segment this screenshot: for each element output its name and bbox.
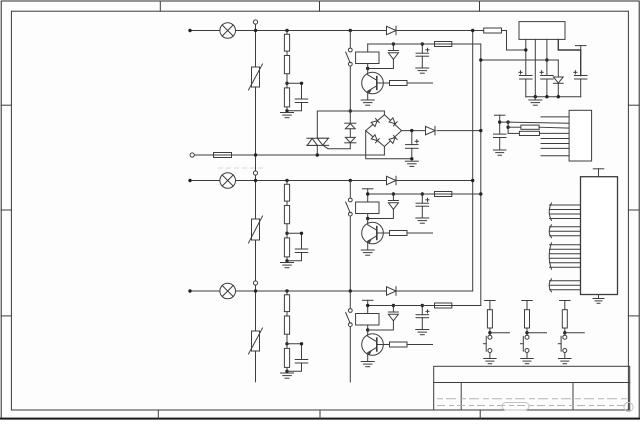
junction divider bottom channel 1 (285, 109, 288, 112)
wire divider chain channel 3 (286, 291, 288, 371)
wire flyback top stub channel 3 (392, 306, 394, 313)
resistor R21 pullup (487, 310, 492, 328)
terminal contact bottom channel 2 (348, 212, 352, 216)
capacitor C32 (416, 315, 429, 318)
title block divider 2 (572, 383, 574, 411)
cable brace U2 pins 224.8 (549, 225, 551, 238)
resistor R15 (390, 81, 408, 86)
power flag VCC RC network (494, 114, 505, 116)
junction flyback tap channel 2 (392, 192, 395, 195)
junction collector node channel 2 (366, 217, 369, 220)
junction cap tap channel 2 (421, 192, 424, 195)
junction divider top channel 1 (285, 29, 288, 32)
wire U2 pin 2 (550, 209, 581, 211)
power flag VCC button 2 (522, 300, 533, 302)
terminal TB3 channel 2 (253, 171, 257, 175)
watermark logo capsule (502, 403, 529, 411)
polarity mark C32 plus (426, 310, 429, 313)
wire bridge bottom to neutral (383, 147, 385, 156)
ground regulator (529, 100, 542, 105)
junction relay bus tap channel 3 (349, 289, 352, 292)
frame tick right y=105.2 (628, 104, 639, 106)
wire J1 pin stub 1 (541, 138, 569, 140)
wire U2 pin 5 (550, 226, 581, 228)
wire relay bus lower channel 1 (349, 66, 351, 111)
wire relay bus lower channel 2 (349, 216, 351, 291)
junction divider mid channel 2 (285, 232, 288, 235)
wire bridge top feed (350, 111, 384, 115)
wire cap branch top channel 3 (287, 344, 302, 360)
relay coil K3 (356, 314, 379, 326)
regulator U1 (519, 22, 565, 40)
terminal button top contact 1 (488, 335, 492, 339)
wire R18 to J1 pin4 (540, 132, 570, 134)
cable brace U2 pins 242.8 (549, 243, 551, 269)
junction triac neutral junction (316, 153, 319, 156)
resistor R16 regulator feed (484, 28, 502, 33)
junction cap branch channel 3 (300, 342, 303, 345)
wire +12V to regulator row (481, 59, 559, 61)
wire flyback return channel 2 (368, 209, 394, 218)
switch pushbutton S2 actuator (521, 336, 524, 351)
wire trigger diode mid (349, 129, 351, 138)
wire cap lower stub channel 2 (421, 206, 423, 218)
frame tick bottom x=480.2 (479, 410, 481, 418)
resistor R12 (284, 56, 289, 74)
terminal neutral input TB2 (190, 153, 194, 157)
wire cap stub channel 1 (421, 44, 423, 53)
junction rail tap channel 2 (366, 192, 369, 195)
capacitor C7 (406, 145, 419, 149)
terminal contact bottom channel 3 (348, 323, 352, 327)
wire VCC stub channel 3 (367, 300, 369, 305)
wire RC node drop (507, 122, 509, 133)
wire bridge left corner down (366, 131, 412, 159)
resistor R23 pullup (562, 310, 567, 328)
wire bridge output to +12V bus (437, 130, 481, 132)
junction gnd bus tap 2 (545, 95, 548, 98)
junction divider top channel 3 (285, 289, 288, 292)
bridge diode top-left (371, 119, 379, 127)
resistor R33 (284, 348, 289, 367)
diode D12 (388, 51, 398, 60)
lamp EL3 (220, 283, 236, 299)
resistor R22 pullup (525, 310, 530, 328)
ground divider channel 3 (281, 373, 294, 378)
wire J1 pin stub 3 (541, 147, 569, 149)
triac VT1 (307, 138, 329, 145)
bridge rectifier VD1 outline (366, 115, 402, 147)
junction varistor tap channel 2 (254, 179, 257, 182)
wire regulator input (507, 31, 526, 51)
capacitor C11 (295, 99, 308, 103)
polarity mark C12 plus (426, 48, 429, 51)
switch relay contact K1 blade (346, 52, 350, 63)
wire divider chain channel 1 (286, 31, 288, 111)
polarity mark C8 plus (519, 71, 522, 74)
wire R17 to J1 pin3 (539, 126, 569, 129)
ground divider channel 2 (281, 263, 294, 268)
wire channel 2 mains line L2 (190, 180, 473, 182)
junction flyback tap channel 1 (392, 42, 395, 45)
ground U2 (593, 299, 604, 304)
wire U2 pin 14 (550, 280, 581, 282)
wire cap lower stub channel 3 (421, 318, 423, 330)
watermark logo circle (624, 402, 633, 411)
power flag U2 VCC (593, 168, 604, 170)
wire base feed channel 1 (407, 82, 433, 84)
frame tick left y=315.9 (1, 315, 11, 317)
wire base feed channel 3 (407, 344, 433, 346)
watermark row 1 (437, 398, 627, 400)
wire U2 pin 7 (550, 235, 581, 237)
ground cap channel 1 (416, 68, 429, 73)
wire button resistor stub 1 (489, 301, 491, 310)
resistor R34 (435, 303, 452, 308)
junction divider bottom channel 2 (285, 259, 288, 262)
capacitor C31 (295, 360, 308, 364)
capacitor C10 (574, 76, 587, 80)
ground divider channel 1 (281, 113, 294, 118)
capacitor C21 (295, 249, 308, 253)
wire relay bus upper channel 3 (349, 291, 351, 309)
junction rail tap to regulator (479, 58, 482, 61)
relay coil K2 (356, 202, 379, 214)
transistor Q2 (362, 219, 390, 251)
transistor Q3 (362, 330, 390, 362)
junction triac feed node (349, 109, 352, 112)
wire cap branch bottom channel 3 (287, 363, 302, 371)
junction gnd bus tap 3 (557, 95, 560, 98)
varistor RV1 (249, 64, 263, 90)
wire U2 pin 12 (550, 262, 581, 264)
junction collector node channel 3 (366, 328, 369, 331)
wire J1 pin stub 2 (541, 143, 569, 145)
resistor R18 (519, 131, 539, 135)
wire button gnd stub 2 (526, 353, 528, 359)
junction collector node channel 1 (366, 67, 369, 70)
frame tick top x=319.5 (319, 1, 321, 11)
capacitor C22 (416, 203, 429, 206)
frame tick top x=160.3 (159, 1, 161, 11)
junction RC node A (506, 120, 509, 123)
watermark fragment mid-left (218, 167, 264, 169)
power flag VCC button 1 (485, 300, 496, 302)
frame tick top x=479.5 (479, 1, 481, 11)
junction cap branch channel 1 (300, 82, 303, 85)
lamp EL2 (220, 173, 236, 189)
resistor R24 (435, 192, 452, 197)
junction cap tap channel 3 (421, 304, 424, 307)
wire U2 pin 6 (550, 230, 581, 232)
junction cap branch channel 2 (300, 232, 303, 235)
watermark row 2 (437, 405, 627, 407)
junction divider bottom channel 3 (285, 370, 288, 373)
capacitor C12 (416, 53, 429, 56)
wire U2 top stub (598, 169, 600, 177)
switch pushbutton S3 actuator (558, 336, 561, 351)
junction varistor tap channel 1 (254, 29, 257, 32)
wire cap branch top channel 2 (287, 233, 302, 249)
ground button 1 (484, 359, 497, 364)
zener diode VZ1 (557, 60, 559, 77)
junction bridge DC+ node (410, 129, 413, 132)
resistor R32 (284, 316, 289, 334)
diode D32 (388, 312, 398, 321)
wire U2 pin 11 (550, 257, 581, 259)
wire bridge cap lower stub (411, 148, 413, 159)
wire trigger diode stem (349, 111, 351, 123)
terminal TB1 channel 1 (253, 20, 257, 24)
wire cap lower stub channel 1 (421, 56, 423, 68)
terminal button top contact 2 (525, 335, 529, 339)
diode D11 (387, 26, 397, 35)
wire flyback top stub channel 2 (392, 194, 394, 201)
wire cap branch bottom channel 2 (287, 253, 302, 261)
resistor R13 (284, 88, 289, 107)
wire regulator ground bus (526, 96, 581, 98)
wire U2 pin 8 (550, 244, 581, 246)
wire VZ1 lower (557, 83, 559, 96)
junction RC top node (498, 120, 501, 123)
frame tick bottom x=158.3 (157, 410, 159, 418)
junction U1 output node (545, 58, 548, 61)
power flag VCC button 3 (560, 300, 571, 302)
wire cap branch top channel 1 (287, 83, 302, 99)
wire neutral line N (194, 154, 384, 156)
resistor R11 (284, 34, 289, 51)
junction left end channel 2 (188, 179, 191, 182)
wire regulator gnd stub (534, 97, 536, 100)
junction button node 2 (525, 331, 528, 334)
junction U1 input node (524, 48, 527, 51)
resistor R14 (435, 42, 452, 47)
junction left end channel 1 (188, 29, 191, 32)
wire triac MT1 to neutral (316, 145, 318, 155)
transistor Q1 (362, 69, 390, 101)
junction divider mid channel 3 (285, 342, 288, 345)
wire cap stub channel 2 (421, 194, 423, 203)
wire bridge right output (402, 130, 426, 132)
junction flyback tap channel 3 (392, 304, 395, 307)
wire coil bottom stub channel 1 (367, 64, 369, 69)
wire relay rail channel 2 (368, 193, 481, 195)
wire RC stem (499, 115, 501, 134)
wire channel 3 mains line L3 (190, 290, 473, 292)
frame tick left y=210.0 (1, 209, 11, 211)
junction button node 3 (563, 331, 566, 334)
resistor R22 (284, 206, 289, 224)
wire button output 1 (490, 332, 510, 334)
bridge diode top-right (389, 118, 397, 126)
ground button 2 (521, 359, 534, 364)
IC U2 (581, 177, 618, 295)
ground emitter channel 3 (361, 362, 374, 367)
title block divider 1 (460, 383, 462, 411)
junction cap tap channel 1 (421, 42, 424, 45)
ground emitter channel 1 (361, 100, 374, 105)
wire varistor column (x=255.5) (255, 24, 257, 382)
wire R17 feed (508, 126, 521, 128)
ground RC network (493, 150, 506, 155)
wire relay bus upper channel 2 (349, 181, 351, 199)
wire U2 pin 1 (550, 204, 581, 206)
switch relay contact K2 blade (346, 202, 350, 213)
wire U1 aux stub (580, 46, 582, 50)
wire U2 pin 4 (550, 218, 581, 220)
terminal contact bottom channel 1 (348, 62, 352, 66)
wire coil bottom stub channel 3 (367, 325, 369, 330)
junction RC node B (506, 126, 509, 129)
wire U2 pin 15 (550, 284, 581, 286)
wire U2 pin 10 (550, 253, 581, 255)
terminal button bottom contact 1 (488, 349, 492, 353)
switch relay contact K3 blade (346, 313, 350, 324)
resistor R35 (390, 342, 408, 347)
wire base feed channel 2 (407, 232, 433, 234)
wire flyback return channel 1 (368, 59, 394, 68)
wire button gnd stub 3 (564, 353, 566, 359)
ground bridge filter (405, 161, 418, 166)
wire relay bus upper channel 1 (349, 31, 351, 49)
diode D22 (388, 201, 398, 210)
bridge diode bottom-right (389, 135, 397, 143)
wire button resistor lower 2 (526, 328, 528, 335)
frame tick bottom x=320.0 (319, 410, 321, 418)
wire U2 gnd stub (598, 295, 600, 299)
cable brace U2 pins 203.0 (549, 203, 551, 221)
wire cap stub channel 3 (421, 306, 423, 315)
diode D16 output (426, 126, 436, 135)
wire triac MT2 feed (317, 111, 350, 138)
power flag VCC channel 3 (362, 299, 373, 301)
wire button resistor lower 3 (564, 328, 566, 335)
wire U1 pin4 detour (558, 39, 580, 75)
connector J1 (569, 110, 592, 161)
junction rail joins +12V channel 2 (479, 192, 482, 195)
junction bus B1 channel 1 tap (471, 29, 474, 32)
terminal contact top channel 2 (348, 198, 352, 202)
frame tick left y=105.2 (1, 104, 11, 106)
wire RC to J1 pin2 (508, 122, 569, 123)
wire flyback top stub channel 1 (392, 44, 394, 51)
diode D15 trigger (cathode down) (345, 137, 356, 142)
wire button resistor lower 1 (489, 328, 491, 335)
junction left end channel 3 (188, 289, 191, 292)
wire U2 pin 9 (550, 248, 581, 250)
resistor R17 (521, 125, 539, 129)
polarity mark C9 plus (540, 71, 543, 74)
terminal contact top channel 3 (348, 309, 352, 313)
wire flyback return channel 3 (368, 321, 394, 330)
junction relay bus tap channel 2 (349, 179, 352, 182)
cable brace U2 pins 278.8 (549, 279, 551, 292)
wire relay bus lower channel 3 (349, 327, 351, 382)
wire triac gate link (323, 143, 350, 149)
wire C10 lower (580, 79, 582, 97)
lamp EL1 (220, 23, 236, 39)
wire U2 pin 13 (550, 266, 581, 268)
ground emitter channel 2 (361, 250, 374, 255)
wire U1 pin3 (546, 39, 548, 75)
junction bus B1 channel 2 tap (471, 179, 474, 182)
power flag U1 aux flag (575, 45, 586, 47)
wire C11 lower (499, 138, 501, 150)
resistor R21 (284, 184, 289, 201)
switch pushbutton S1 actuator (483, 336, 486, 351)
wire C9 lower (546, 79, 548, 97)
wire U1 pin1 (525, 39, 527, 75)
wire U2 pin 3 (550, 213, 581, 215)
junction rail tap channel 3 (366, 304, 369, 307)
terminal button bottom contact 2 (525, 349, 529, 353)
wire RC link right (500, 121, 508, 123)
junction varistor neutral junction (254, 153, 257, 156)
junction divider top channel 2 (285, 179, 288, 182)
wire U1 pin2 (gnd) (534, 39, 536, 96)
polarity mark C10 plus (574, 71, 577, 74)
wire relay rail channel 1 (368, 43, 481, 45)
junction gnd bus tap 1 (534, 95, 537, 98)
terminal TB5 channel 3 (253, 281, 257, 285)
power flag VCC channel 2 (362, 188, 373, 190)
terminal contact top channel 1 (348, 48, 352, 52)
wire coil top stub channel 1 (367, 44, 369, 52)
capacitor C9 (541, 76, 554, 80)
junction varistor tap channel 3 (254, 289, 257, 292)
wire R18 feed (508, 132, 519, 134)
wire button output 2 (527, 332, 547, 334)
ground cap channel 3 (416, 330, 429, 335)
junction button node 1 (488, 331, 491, 334)
terminal button bottom contact 3 (563, 349, 567, 353)
wire vertical bus net B1 (x=472.7) (472, 31, 474, 292)
wire VCC stub channel 2 (367, 189, 369, 194)
wire cap branch bottom channel 1 (287, 103, 302, 111)
junction output joins +12V bus (479, 129, 482, 132)
polarity mark C7 plus (415, 140, 418, 143)
ground cap channel 2 (416, 218, 429, 223)
bridge diode bottom-left (371, 135, 379, 143)
ground button 3 (559, 359, 572, 364)
capacitor C8 (520, 76, 533, 80)
wire J1 pin stub 0 (541, 116, 569, 118)
diode D14 trigger (cathode up) (345, 123, 356, 129)
wire C8 lower (525, 79, 527, 97)
diode D31 (387, 287, 397, 296)
wire coil top stub channel 2 (367, 194, 369, 202)
terminal button top contact 3 (563, 335, 567, 339)
wire channel 1 mains line L1 (190, 30, 507, 32)
junction divider mid channel 1 (285, 82, 288, 85)
wire coil top stub channel 3 (367, 306, 369, 314)
wire relay rail channel 3 (368, 305, 481, 307)
frame tick right y=210.0 (628, 209, 639, 211)
wire divider chain channel 2 (286, 181, 288, 261)
varistor RV2 (249, 216, 263, 243)
frame tick right y=315.9 (628, 315, 639, 317)
capacitor C11 (493, 134, 506, 137)
wire button gnd stub 1 (489, 353, 491, 359)
resistor R25 (390, 231, 408, 236)
resistor R23 (284, 238, 289, 257)
sheet outer border bottom thick (0, 418, 640, 420)
junction relay bus tap channel 1 (349, 29, 352, 32)
wire bridge cap stub (411, 131, 413, 145)
varistor RV3 (249, 328, 263, 354)
wire button output 3 (565, 332, 585, 334)
title block row line (434, 382, 630, 384)
